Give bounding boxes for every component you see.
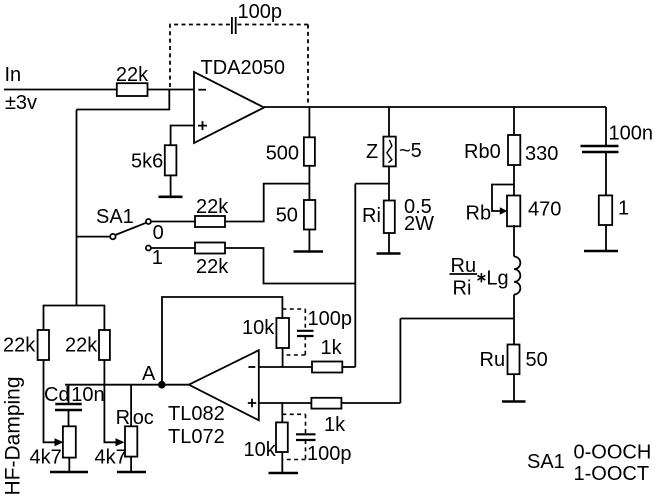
wire output to Z bbox=[388, 107, 390, 137]
svg-text:2W: 2W bbox=[404, 213, 434, 235]
resistor R2 5k6 bbox=[131, 145, 176, 175]
potentiometer P1 4k7 (HF damping) bbox=[30, 426, 76, 468]
wire 100n to 1 bbox=[605, 152, 607, 195]
capacitor C1 100p (feedback, dashed path) bbox=[170, 1, 308, 105]
resistor R7 1 bbox=[599, 195, 629, 225]
resistor R12 1k (noninverting) bbox=[311, 398, 346, 436]
svg-text:Ru: Ru bbox=[480, 349, 506, 371]
svg-text:Ri: Ri bbox=[362, 205, 381, 227]
capacitor 100n bbox=[581, 123, 654, 153]
ground (5k6) bbox=[159, 196, 183, 199]
svg-text:0: 0 bbox=[153, 222, 164, 244]
wire 22k to inverting input bbox=[148, 89, 195, 91]
svg-text:0-OOCH: 0-OOCH bbox=[574, 442, 652, 464]
wire 1 to ground bbox=[605, 225, 607, 251]
wire 5k6 to ground bbox=[170, 175, 172, 196]
wire Ru to ground bbox=[513, 374, 515, 401]
svg-text:100p: 100p bbox=[238, 1, 283, 23]
svg-text:100n: 100n bbox=[609, 123, 654, 145]
op-amp U1 TDA2050 bbox=[194, 57, 285, 143]
svg-text:1: 1 bbox=[152, 247, 163, 269]
wire output to Rb0 bbox=[513, 107, 515, 135]
wire Z to Ri bbox=[388, 167, 390, 201]
wire Lg to Ru bbox=[513, 295, 515, 345]
svg-text:TL082: TL082 bbox=[168, 403, 225, 425]
svg-text:10k: 10k bbox=[244, 439, 277, 461]
svg-text:Rb0: Rb0 bbox=[464, 141, 501, 163]
svg-text:500: 500 bbox=[266, 143, 299, 165]
wire 10k to inverting input bbox=[282, 348, 284, 367]
svg-text:Ri: Ri bbox=[453, 278, 472, 300]
svg-text:HF-Damping: HF-Damping bbox=[2, 376, 25, 495]
ground (pot2) bbox=[117, 471, 146, 474]
ground (Ri) bbox=[377, 252, 401, 255]
ground (Ru) bbox=[502, 400, 526, 403]
wire 22k-1 to right rail bbox=[225, 248, 355, 284]
resistor R6 50 bbox=[276, 200, 316, 230]
node A bbox=[142, 363, 166, 389]
svg-text:22k: 22k bbox=[196, 196, 229, 218]
svg-text:50: 50 bbox=[526, 349, 548, 371]
svg-text:A: A bbox=[142, 363, 156, 385]
wire 22k to pot2 wiper bbox=[104, 360, 117, 442]
switch SA1 bbox=[77, 206, 164, 269]
wire node A bus bbox=[65, 384, 189, 386]
svg-text:±3v: ±3v bbox=[5, 92, 37, 114]
svg-text:1k: 1k bbox=[321, 337, 343, 359]
wire 10k to ground bbox=[281, 452, 283, 473]
svg-text:22k: 22k bbox=[65, 334, 98, 356]
wire noninverting input to 5k6 bbox=[171, 126, 194, 146]
resistor R1 22k (input) bbox=[116, 64, 149, 96]
wire left divider top bbox=[44, 306, 105, 331]
wire Z/Ri tap to right rail bbox=[355, 183, 389, 185]
label SA1 legend bbox=[527, 442, 651, 486]
wire 500 to 50 bbox=[308, 166, 310, 200]
svg-text:1: 1 bbox=[618, 198, 629, 220]
svg-text:Cd: Cd bbox=[44, 384, 70, 406]
resistor R5 500 bbox=[266, 137, 315, 166]
wire left rail bbox=[76, 110, 78, 306]
wire pot1 to ground bbox=[68, 458, 70, 472]
resistor R8 22k (damping left) bbox=[3, 330, 49, 360]
resistor R9 22k (damping right) bbox=[65, 330, 110, 360]
svg-text:50: 50 bbox=[276, 205, 298, 227]
svg-text:TL072: TL072 bbox=[168, 426, 225, 448]
inductor Lg bbox=[450, 255, 521, 300]
wire Roc top bbox=[116, 385, 154, 429]
wire 22k-0 to 500/50 junction bbox=[225, 184, 309, 222]
wire throw 1 to 22k bbox=[151, 247, 195, 249]
wire noninverting sense tap bbox=[400, 318, 514, 320]
ground (10k) bbox=[269, 472, 299, 475]
svg-text:Lg: Lg bbox=[486, 268, 508, 290]
svg-text:1k: 1k bbox=[324, 414, 346, 436]
resistor Z (lamp) bbox=[366, 137, 422, 167]
resistor Ru 50 bbox=[480, 345, 548, 375]
potentiometer Roc 4k7 bbox=[95, 426, 138, 468]
potentiometer Rb 470 bbox=[466, 185, 562, 227]
svg-text:SA1: SA1 bbox=[96, 206, 134, 228]
svg-text:22k: 22k bbox=[116, 64, 149, 86]
svg-text:4k7: 4k7 bbox=[30, 447, 62, 469]
ground (1) bbox=[584, 250, 618, 253]
svg-text:~5: ~5 bbox=[399, 140, 422, 162]
wire right rail bbox=[354, 184, 356, 367]
svg-text:100p: 100p bbox=[307, 443, 352, 465]
capacitor C3 100p (bottom, dashed) bbox=[282, 414, 351, 465]
resistor R11 1k (inverting) bbox=[312, 337, 343, 373]
op-amp U2 TL082 bbox=[168, 350, 259, 448]
resistor R10 10k (feedback) bbox=[242, 317, 289, 348]
resistor R4 22k (position 1) bbox=[195, 243, 229, 279]
wire feedback A to 10k bbox=[162, 297, 282, 385]
svg-text:100p: 100p bbox=[308, 308, 353, 330]
wire noninverting to 10k bbox=[281, 403, 283, 422]
wire 1k to sense rail bbox=[341, 319, 400, 404]
wire throw 0 to 22k bbox=[151, 221, 195, 223]
svg-text:330: 330 bbox=[525, 143, 558, 165]
resistor Ri bbox=[362, 196, 434, 235]
svg-text:In: In bbox=[5, 64, 22, 86]
wire 1k to right rail bbox=[342, 366, 355, 368]
svg-text:22k: 22k bbox=[3, 334, 36, 356]
svg-text:5k6: 5k6 bbox=[131, 151, 163, 173]
wire 50 to ground bbox=[308, 230, 310, 252]
wire Rb to Lg bbox=[513, 225, 515, 257]
ground (pot1) bbox=[50, 471, 88, 474]
resistor Rb0 330 bbox=[464, 135, 558, 165]
ground (50) bbox=[294, 250, 324, 253]
svg-text:4k7: 4k7 bbox=[95, 447, 127, 469]
svg-text:TDA2050: TDA2050 bbox=[201, 57, 286, 79]
capacitor Cd 10n bbox=[44, 384, 105, 427]
wire inverting input bbox=[259, 366, 312, 368]
svg-text:22k: 22k bbox=[196, 256, 229, 278]
resistor R3 22k (position 0) bbox=[195, 196, 229, 227]
wire junction to left rail bbox=[77, 90, 170, 110]
node In label bbox=[5, 64, 38, 114]
wire 22k to pot1 wiper bbox=[44, 360, 57, 442]
svg-text:470: 470 bbox=[528, 199, 561, 221]
wire output bus bbox=[264, 106, 606, 108]
capacitor C2 100p (across 10k, dashed) bbox=[282, 308, 352, 355]
wire noninverting input bbox=[259, 402, 312, 404]
resistor R13 10k (noninverting to ground) bbox=[244, 422, 288, 461]
svg-text:Rb: Rb bbox=[466, 203, 492, 225]
wire output to 100n bbox=[605, 107, 607, 146]
wire Ri to ground bbox=[388, 233, 390, 254]
wire input bbox=[4, 89, 117, 91]
wire Rb0 to Rb bbox=[513, 165, 515, 195]
svg-text:SA1: SA1 bbox=[527, 451, 565, 473]
svg-text:10n: 10n bbox=[71, 384, 104, 406]
wire pot2 to ground bbox=[130, 457, 132, 472]
svg-text:Z: Z bbox=[366, 141, 378, 163]
wire output to 500 bbox=[308, 107, 310, 137]
svg-text:10k: 10k bbox=[242, 317, 275, 339]
svg-text:1-OOCT: 1-OOCT bbox=[574, 463, 650, 485]
